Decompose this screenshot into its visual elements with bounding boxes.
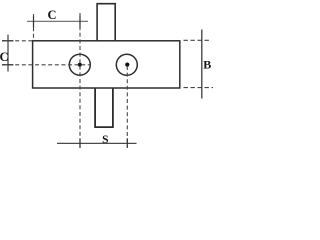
- tick S left: [79, 138, 81, 148]
- hole left circle: [69, 54, 90, 75]
- svg-text:C: C: [47, 8, 56, 22]
- dimension line C top: [27, 20, 88, 22]
- horizontal center line through left hole (dashed): [2, 64, 91, 66]
- dimension line C left: [7, 35, 9, 72]
- vertical center line through left hole (dashed): [79, 13, 81, 148]
- extension line right of plate bottom edge (dashed): [184, 87, 214, 89]
- svg-text:S: S: [102, 134, 108, 146]
- tick left C bottom: [2, 64, 14, 66]
- dimension line S bottom: [57, 142, 137, 144]
- tick top C right: [79, 16, 81, 28]
- svg-text:C: C: [0, 50, 9, 64]
- vertical extension line below right hole (dashed): [126, 66, 128, 147]
- hole left center dot: [78, 63, 82, 67]
- hole right center dot: [125, 63, 129, 67]
- extension line left of plate top edge (dashed): [2, 40, 32, 42]
- tick top C left: [33, 16, 35, 27]
- top tab: [97, 4, 115, 41]
- hole right circle: [116, 54, 137, 75]
- extension line above plate left edge (dashed): [33, 14, 35, 41]
- plate body rectangle: [33, 41, 180, 88]
- bottom tab: [95, 88, 113, 127]
- tick left C top: [2, 40, 14, 42]
- tick S right: [126, 138, 128, 148]
- svg-text:B: B: [203, 57, 211, 71]
- dimension line B right: [201, 30, 203, 99]
- extension line right of plate top edge (dashed): [184, 39, 212, 41]
